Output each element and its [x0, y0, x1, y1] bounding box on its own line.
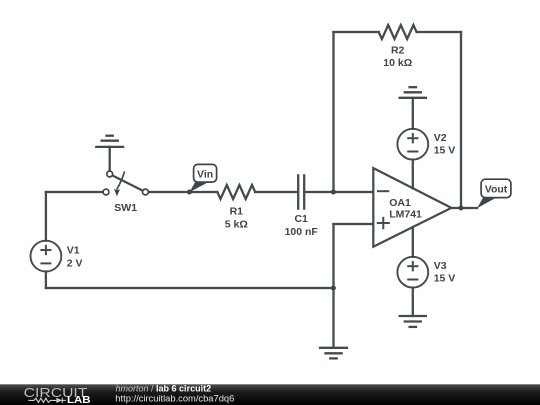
svg-text:SW1: SW1 — [114, 202, 137, 214]
svg-text:R2: R2 — [391, 44, 405, 56]
svg-text:Vout: Vout — [485, 183, 508, 195]
svg-text:hmorton / lab 6 circuit2: hmorton / lab 6 circuit2 — [116, 383, 212, 393]
svg-text:100 nF: 100 nF — [285, 226, 319, 238]
svg-text:C1: C1 — [294, 213, 308, 225]
svg-text:V1: V1 — [67, 245, 80, 257]
svg-text:OA1: OA1 — [389, 197, 411, 209]
svg-text:15 V: 15 V — [434, 273, 456, 285]
svg-text:LM741: LM741 — [389, 209, 422, 221]
svg-text:2 V: 2 V — [67, 257, 83, 269]
svg-text:5 kΩ: 5 kΩ — [225, 218, 248, 230]
svg-text:V2: V2 — [434, 132, 447, 144]
svg-text:Vin: Vin — [197, 168, 213, 180]
svg-text:15 V: 15 V — [434, 145, 456, 157]
svg-text:V3: V3 — [434, 260, 447, 272]
svg-text:R1: R1 — [230, 206, 244, 218]
svg-text:http://circuitlab.com/cba7dq6: http://circuitlab.com/cba7dq6 — [115, 393, 234, 403]
svg-text:LAB: LAB — [67, 394, 91, 405]
svg-text:10 kΩ: 10 kΩ — [383, 57, 412, 69]
